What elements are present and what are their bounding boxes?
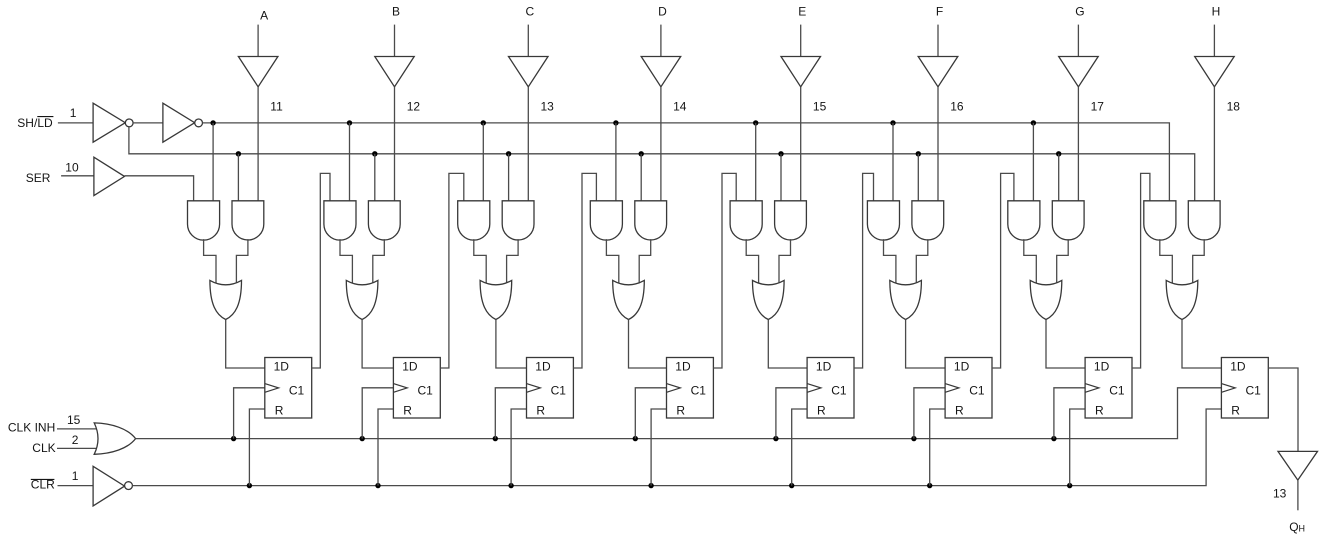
wire B label to buffer xyxy=(394,25,396,57)
inverter U5 (CLR) xyxy=(93,466,125,506)
wire D label to buffer xyxy=(660,25,662,57)
or-gate B xyxy=(346,280,378,319)
svg-text:C1: C1 xyxy=(969,384,985,398)
wire AND B2 output xyxy=(373,239,385,283)
FF G clock wedge xyxy=(1085,384,1099,393)
wire FF B Q to stage C xyxy=(440,173,464,368)
svg-text:14: 14 xyxy=(673,99,687,113)
wire CLK input xyxy=(57,447,101,449)
wire C label to buffer xyxy=(527,25,529,57)
flip-flop FF F xyxy=(945,358,992,419)
wire H label to buffer xyxy=(1213,25,1215,57)
wire line1 to AND A1 xyxy=(212,123,214,201)
or-gate F xyxy=(890,280,922,319)
svg-text:2: 2 xyxy=(72,433,79,447)
FF F clock wedge xyxy=(945,384,959,393)
wire AND G1 output xyxy=(1024,239,1037,283)
wire line2 to AND G2 xyxy=(1058,154,1060,201)
svg-text:C1: C1 xyxy=(551,384,567,398)
wire FF H Q to output buffer xyxy=(1268,368,1298,451)
wire AND D2 output xyxy=(639,239,651,283)
wire AND F2 output xyxy=(916,239,928,283)
node line1 stage F xyxy=(890,120,895,125)
node line2 stage G xyxy=(1056,151,1061,156)
and-gate E1 (serial) xyxy=(730,201,762,240)
svg-text:R: R xyxy=(817,403,826,417)
node clock stage B xyxy=(360,436,365,441)
input buffer G xyxy=(1059,57,1099,87)
node line1 stage C xyxy=(481,120,486,125)
wire FF C Q to stage D xyxy=(573,173,596,368)
wire OR G to 1D xyxy=(1046,320,1085,369)
wire clear bus xyxy=(132,409,1221,486)
wire clear to FF E R xyxy=(792,409,807,486)
or-gate C xyxy=(480,280,512,319)
overline on CLR xyxy=(31,478,55,480)
wire line1 to AND B1 xyxy=(349,123,351,201)
svg-text:C: C xyxy=(525,5,534,19)
wire OR A to 1D xyxy=(226,320,265,369)
svg-text:CLK: CLK xyxy=(32,441,55,455)
wire CLK INH input xyxy=(57,428,101,430)
FF A clock wedge xyxy=(265,384,279,393)
node line1 stage B xyxy=(347,120,352,125)
svg-text:R: R xyxy=(955,403,964,417)
wire line1 to AND G1 xyxy=(1032,123,1034,201)
and-gate D1 (serial) xyxy=(590,201,622,240)
flip-flop FF E xyxy=(807,358,854,419)
and-gate A2 (load) xyxy=(232,201,264,240)
flip-flop FF A xyxy=(265,358,312,419)
wire line1 to AND F1 xyxy=(892,123,894,201)
or-gate G xyxy=(1030,280,1062,319)
wire E label to buffer xyxy=(800,25,802,57)
svg-text:15: 15 xyxy=(67,413,81,427)
overline on LD xyxy=(37,116,53,118)
wire AND H2 output xyxy=(1193,239,1205,283)
wire F label to buffer xyxy=(937,25,939,57)
inverter U1 (SH/LD) xyxy=(93,103,125,142)
wire SER input xyxy=(61,175,94,177)
wire SH/LD input xyxy=(58,122,93,124)
FF H clock wedge xyxy=(1221,384,1235,393)
wire OR F to 1D xyxy=(906,320,946,369)
svg-text:1D: 1D xyxy=(402,359,418,373)
wire clock to FF E xyxy=(776,388,807,439)
svg-text:1D: 1D xyxy=(535,359,551,373)
svg-text:A: A xyxy=(260,9,268,23)
input buffer F xyxy=(918,57,958,87)
and-gate G1 (serial) xyxy=(1008,201,1040,240)
wire clear to FF B R xyxy=(378,409,393,486)
svg-text:1D: 1D xyxy=(816,359,832,373)
wire clock to FF G xyxy=(1054,388,1085,439)
svg-text:R: R xyxy=(1095,403,1104,417)
and-gate E2 (load) xyxy=(775,201,807,240)
wire G label to buffer xyxy=(1077,25,1079,57)
and-gate G2 (load) xyxy=(1052,201,1084,240)
and-gate B1 (serial) xyxy=(324,201,356,240)
svg-text:SH/LD: SH/LD xyxy=(17,116,53,130)
wire clock to FF F xyxy=(914,388,945,439)
output buffer U6 (QH) xyxy=(1278,451,1318,480)
svg-text:1: 1 xyxy=(72,469,79,483)
wire shift bus line2 xyxy=(129,127,1195,201)
wire clear to FF C R xyxy=(511,409,526,486)
buffer U3 (SER) xyxy=(94,157,125,195)
wire line2 to AND D2 xyxy=(640,154,642,201)
wire AND E1 output xyxy=(746,239,758,283)
and-gate F1 (serial) xyxy=(867,201,899,240)
input buffer A xyxy=(238,57,278,87)
and-gate F2 (load) xyxy=(912,201,944,240)
node clear stage F xyxy=(927,483,932,488)
svg-text:C1: C1 xyxy=(1109,384,1125,398)
svg-text:C1: C1 xyxy=(1246,384,1262,398)
node clock stage D xyxy=(633,436,638,441)
svg-text:12: 12 xyxy=(407,99,421,113)
wire clock to FF C xyxy=(495,388,526,439)
wire FF G Q to stage H xyxy=(1132,173,1150,368)
node line1 stage E xyxy=(753,120,758,125)
wire OR H to 1D xyxy=(1182,320,1221,369)
node clock stage E xyxy=(773,436,778,441)
input buffer D xyxy=(641,57,681,87)
svg-text:H: H xyxy=(1212,5,1221,19)
node line2 stage C xyxy=(506,151,511,156)
wire line1 to AND D1 xyxy=(615,123,617,201)
wire QH output xyxy=(1297,480,1299,510)
node clock stage F xyxy=(911,436,916,441)
node clear stage D xyxy=(648,483,653,488)
FF B clock wedge xyxy=(393,384,407,393)
wire buffer B to AND B2 xyxy=(394,87,396,201)
node line2 stage D xyxy=(639,151,644,156)
and-gate A1 (serial) xyxy=(188,201,220,240)
wire line1 to AND C1 xyxy=(482,123,484,201)
wire line2 to AND A2 xyxy=(237,154,239,201)
wire clear to FF D R xyxy=(651,409,666,486)
wire line1 to AND E1 xyxy=(755,123,757,201)
wire clear to FF A R xyxy=(249,409,264,486)
wire SER to AND A1 xyxy=(125,176,194,201)
wire line2 to AND C2 xyxy=(508,154,510,201)
svg-text:C1: C1 xyxy=(289,384,305,398)
wire OR E to 1D xyxy=(768,320,807,369)
and-gate H2 (load) xyxy=(1188,201,1220,240)
svg-text:R: R xyxy=(536,403,545,417)
inverter U2 bubble xyxy=(195,119,203,127)
input buffer H xyxy=(1195,57,1235,87)
wire AND G2 output xyxy=(1057,239,1069,283)
and-gate B2 (load) xyxy=(368,201,400,240)
svg-text:SER: SER xyxy=(26,171,51,185)
svg-text:C1: C1 xyxy=(831,384,847,398)
svg-text:F: F xyxy=(936,5,943,19)
svg-text:18: 18 xyxy=(1227,99,1241,113)
svg-text:B: B xyxy=(392,5,400,19)
or-gate U4 (CLK+CLK INH) xyxy=(94,423,135,454)
svg-text:1D: 1D xyxy=(1094,359,1110,373)
wire clock to FF B xyxy=(362,388,393,439)
and-gate C2 (load) xyxy=(502,201,534,240)
wire A label to buffer xyxy=(257,25,259,57)
wire AND C1 output xyxy=(474,239,486,283)
wire clock bus xyxy=(136,388,1222,439)
svg-text:E: E xyxy=(798,5,806,19)
wire U1 to U2 xyxy=(133,122,163,124)
or-gate A xyxy=(210,280,242,319)
node line2 stage F xyxy=(916,151,921,156)
node clock stage C xyxy=(493,436,498,441)
node line2 stage A xyxy=(236,151,241,156)
wire clock to FF A xyxy=(234,388,265,439)
flip-flop FF D xyxy=(667,358,714,419)
FF C clock wedge xyxy=(527,384,541,393)
wire FF F Q to stage G xyxy=(992,173,1014,368)
node clear stage E xyxy=(789,483,794,488)
flip-flop FF B xyxy=(393,358,440,419)
input buffer C xyxy=(509,57,549,87)
node line1 stage A xyxy=(210,120,215,125)
and-gate D2 (load) xyxy=(635,201,667,240)
svg-text:C1: C1 xyxy=(418,384,434,398)
wire AND E2 output xyxy=(779,239,791,283)
svg-text:16: 16 xyxy=(950,99,964,113)
wire AND A1 output xyxy=(204,239,216,283)
wire AND B1 output xyxy=(340,239,352,283)
wire FF D Q to stage E xyxy=(713,173,736,368)
svg-text:1D: 1D xyxy=(675,359,691,373)
flip-flop FF C xyxy=(527,358,574,419)
or-gate H xyxy=(1166,280,1198,319)
and-gate C1 (serial) xyxy=(458,201,490,240)
wire FF A Q to stage B xyxy=(312,173,330,368)
inverter U2 xyxy=(163,103,195,142)
wire buffer A to AND A2 xyxy=(257,87,259,201)
wire load bus line1 xyxy=(203,123,1170,201)
wire OR D to 1D xyxy=(629,320,667,369)
wire AND A2 output xyxy=(236,239,248,283)
node line2 stage B xyxy=(372,151,377,156)
wire CLR input xyxy=(58,485,94,487)
node line1 stage D xyxy=(613,120,618,125)
node clear stage C xyxy=(508,483,513,488)
wire buffer E to AND E2 xyxy=(800,87,802,201)
wire clock to FF D xyxy=(635,388,666,439)
svg-text:R: R xyxy=(676,403,685,417)
svg-text:1D: 1D xyxy=(1230,359,1246,373)
svg-text:15: 15 xyxy=(813,99,827,113)
wire OR B to 1D xyxy=(362,320,393,369)
wire AND C2 output xyxy=(507,239,518,283)
svg-text:R: R xyxy=(1231,403,1240,417)
input buffer E xyxy=(781,57,821,87)
or-gate D xyxy=(613,280,645,319)
node clear stage B xyxy=(375,483,380,488)
svg-text:1D: 1D xyxy=(274,359,290,373)
wire clear to FF F R xyxy=(930,409,945,486)
svg-text:11: 11 xyxy=(270,99,283,113)
svg-text:CLK INH: CLK INH xyxy=(8,421,55,435)
wire clear to FF G R xyxy=(1070,409,1085,486)
wire buffer C to AND C2 xyxy=(527,87,529,201)
flip-flop FF G xyxy=(1085,358,1132,419)
FF D clock wedge xyxy=(667,384,681,393)
wire buffer F to AND F2 xyxy=(937,87,939,201)
svg-text:13: 13 xyxy=(1273,486,1287,500)
wire line2 to AND F2 xyxy=(917,154,919,201)
wire buffer G to AND G2 xyxy=(1077,87,1079,201)
inverter U5 bubble xyxy=(125,482,133,490)
wire line2 to AND B2 xyxy=(374,154,376,201)
node clock stage A xyxy=(231,436,236,441)
node line2 stage E xyxy=(778,151,783,156)
node line1 stage G xyxy=(1031,120,1036,125)
wire FF E Q to stage F xyxy=(854,173,874,368)
wire AND F1 output xyxy=(884,239,896,283)
svg-text:1: 1 xyxy=(70,106,77,120)
svg-text:G: G xyxy=(1075,5,1084,19)
wire buffer H to AND H2 xyxy=(1213,87,1215,201)
svg-text:1D: 1D xyxy=(954,359,970,373)
node clear stage A xyxy=(247,483,252,488)
FF E clock wedge xyxy=(807,384,821,393)
input buffer B xyxy=(375,57,414,87)
node clear stage G xyxy=(1067,483,1072,488)
wire buffer D to AND D2 xyxy=(660,87,662,201)
wire OR C to 1D xyxy=(496,320,527,369)
svg-text:D: D xyxy=(658,5,667,19)
or-gate E xyxy=(753,280,785,319)
inverter U1 bubble xyxy=(125,119,133,127)
wire AND H1 output xyxy=(1160,239,1173,283)
flip-flop FF H xyxy=(1221,358,1268,419)
svg-text:R: R xyxy=(403,403,412,417)
node clock stage G xyxy=(1051,436,1056,441)
svg-text:R: R xyxy=(275,403,284,417)
wire line2 to AND E2 xyxy=(780,154,782,201)
svg-text:13: 13 xyxy=(541,99,555,113)
svg-text:17: 17 xyxy=(1091,99,1105,113)
and-gate H1 (serial) xyxy=(1144,201,1176,240)
svg-text:10: 10 xyxy=(65,161,79,175)
svg-text:C1: C1 xyxy=(691,384,707,398)
wire AND D1 output xyxy=(606,239,618,283)
